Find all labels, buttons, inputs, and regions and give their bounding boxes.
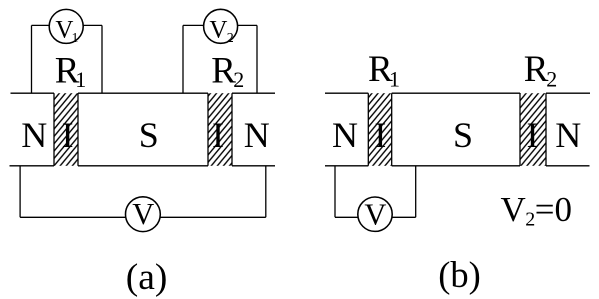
svg-text:N: N [332,115,358,155]
svg-text:2: 2 [227,31,234,46]
svg-text:R: R [524,49,549,90]
svg-text:2: 2 [525,209,535,231]
svg-text:I: I [212,115,224,155]
svg-text:S: S [453,115,473,155]
svg-text:S: S [139,115,159,155]
svg-text:1: 1 [75,67,86,92]
svg-text:2: 2 [546,67,557,92]
svg-text:I: I [527,115,539,155]
svg-text:V: V [132,197,154,231]
svg-text:2: 2 [233,67,244,92]
svg-text:I: I [62,115,74,155]
svg-text:(b): (b) [438,254,481,295]
svg-text:N: N [21,115,47,155]
svg-text:N: N [555,115,581,155]
svg-text:N: N [244,115,270,155]
svg-text:V: V [501,190,526,229]
svg-text:V: V [209,16,227,43]
svg-text:V: V [364,198,386,232]
svg-text:(a): (a) [126,257,168,298]
svg-text:I: I [374,115,386,155]
svg-text:1: 1 [389,67,400,92]
svg-text:1: 1 [72,31,79,46]
svg-text:=0: =0 [535,190,572,229]
